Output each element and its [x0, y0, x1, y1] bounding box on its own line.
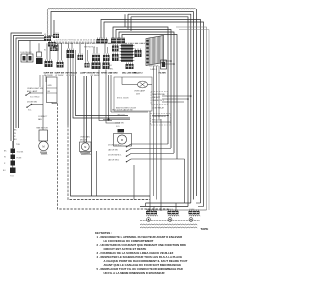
label J1 [44, 73, 54, 78]
svg-text:CLK: CLK [108, 65, 113, 67]
wire left riser 1 [11, 33, 42, 141]
wire top link 4 [128, 14, 191, 203]
svg-text:R: R [4, 163, 6, 165]
connector J1 [45, 43, 53, 67]
node harness bus [54, 42, 150, 44]
switch S4 [118, 129, 125, 132]
label mid note [84, 47, 95, 49]
svg-text:BROIL 3600W: BROIL 3600W [117, 98, 129, 100]
svg-text:OVEN LIGHT SW: OVEN LIGHT SW [27, 88, 43, 90]
connector J7 [122, 63, 137, 75]
svg-text:RR 1800W: RR 1800W [91, 75, 100, 77]
svg-text:OVEN LAMP: OVEN LAMP [134, 89, 146, 92]
svg-text:FILTER: FILTER [159, 73, 167, 75]
wire probe ties [162, 95, 192, 102]
transformer T1 [101, 43, 113, 74]
wire ground tape lower [140, 227, 197, 228]
svg-text:TOD: TOD [16, 144, 21, 146]
svg-text:2 - UN RETARD DU COURANT QUE P: 2 - UN RETARD DU COURANT QUE PENDANT UNE… [97, 243, 186, 247]
svg-text:CTRL: CTRL [108, 69, 114, 71]
wire ctl-right lead 3 [119, 32, 174, 153]
svg-text:INF SW A-B: INF SW A-B [66, 72, 78, 75]
svg-text:N.C.: N.C. [28, 110, 32, 112]
svg-text:GRD: GRD [48, 85, 53, 87]
label meat probe [151, 92, 168, 105]
label lock row3 [115, 123, 124, 129]
wire third lead at top-left [53, 20, 55, 36]
relay block K3 [135, 49, 142, 58]
label control bottom [108, 65, 114, 71]
switch S7 row [108, 154, 174, 157]
svg-text:DOOR SW N.O.: DOOR SW N.O. [108, 154, 122, 156]
switch S8 row [108, 158, 177, 162]
switch S6 row [108, 148, 171, 152]
svg-text:BROIL: BROIL [168, 209, 173, 211]
label J5 [90, 73, 100, 78]
label bus terminals [56, 40, 110, 42]
label keynotes block [95, 231, 188, 275]
svg-text:M: M [42, 145, 44, 149]
svg-text:W: W [4, 157, 6, 159]
svg-text:CONV RELAY: CONV RELAY [152, 107, 165, 110]
relay K2 [27, 41, 33, 63]
svg-text:TCO: TCO [10, 176, 15, 178]
wire motor2 drop [96, 151, 98, 196]
svg-text:BU: BU [3, 170, 6, 172]
svg-text:N.O. HELD: N.O. HELD [30, 96, 40, 98]
connector TB3 [44, 46, 57, 52]
wire lamp lead [122, 77, 152, 85]
wire lock feeds [109, 75, 112, 120]
component FLT [159, 60, 167, 75]
wire right bus 2 [193, 12, 195, 200]
svg-text:FAN MOTOR: FAN MOTOR [37, 127, 49, 130]
svg-text:UN FIL A LA MEME DIMENSION D E: UN FIL A LA MEME DIMENSION D EPAISSEUR [104, 271, 165, 275]
label M3 [80, 135, 90, 141]
label lock row [112, 109, 133, 112]
wire feed r3 [140, 207, 188, 212]
label row fillers [110, 72, 143, 75]
wire light outer right leads [176, 27, 209, 210]
svg-text:LOCK SW: LOCK SW [115, 123, 124, 125]
svg-text:BK: BK [48, 91, 51, 93]
svg-text:LATCH SW 2: LATCH SW 2 [108, 158, 119, 161]
svg-text:LATCH SW: LATCH SW [108, 148, 118, 151]
label lock row2 [117, 115, 126, 117]
motor M3 [80, 142, 92, 155]
svg-text:AVANT QUE LE CABLAGE DU FOUR S: AVANT QUE LE CABLAGE DU FOUR SOIT BIEN B… [104, 263, 182, 267]
svg-text:BU: BU [14, 139, 17, 141]
wire center riser 7 [91, 76, 93, 196]
switch S3 [26, 93, 43, 112]
fuse F4 [10, 166, 16, 178]
connector TB1 [44, 34, 51, 41]
label chain left [3, 151, 7, 173]
lamp DS1 [134, 81, 148, 95]
svg-text:R: R [14, 136, 16, 138]
connector P1 [48, 33, 59, 52]
connector J9 [112, 44, 119, 61]
element E3 (conv) [189, 209, 201, 221]
svg-text:FAN: FAN [38, 118, 42, 121]
connector J2 [57, 43, 64, 67]
svg-text:OVEN FAN: OVEN FAN [80, 135, 90, 138]
wire switch drop [134, 159, 185, 203]
fuse F1 [11, 141, 21, 153]
wire feed r1 [150, 199, 194, 201]
connector J5 [92, 47, 101, 69]
label F1 side [17, 152, 24, 154]
label J3 [66, 72, 78, 78]
svg-text:TOD BK: TOD BK [17, 152, 24, 154]
switch S5 row [108, 144, 168, 147]
wire sensor ties [152, 115, 171, 211]
svg-text:KEYNOTES :: KEYNOTES : [95, 231, 112, 235]
wire ground tape upper [140, 224, 197, 225]
svg-text:M: M [84, 146, 86, 149]
wire feed r5 [148, 210, 207, 211]
wire xfmr drop 1 [99, 70, 112, 121]
svg-text:DBL LINE BRK: DBL LINE BRK [122, 73, 137, 75]
wire center riser 4 [76, 76, 129, 116]
relay K1 [21, 51, 33, 62]
svg-text:L1: L1 [44, 34, 47, 36]
svg-text:1 - DESCONECTE L APPAREIL DU S: 1 - DESCONECTE L APPAREIL DU SECTEUR AVA… [97, 235, 183, 239]
svg-text:LE COUVERCLE DU COMPARTIMENT: LE COUVERCLE DU COMPARTIMENT [104, 239, 154, 243]
node lock junction [103, 118, 130, 120]
svg-text:BAKE: BAKE [146, 208, 152, 211]
wire inner lead from top-left corner [51, 12, 194, 37]
svg-text:SEE NOTE 4: SEE NOTE 4 [84, 47, 95, 49]
svg-text:TAPE: TAPE [201, 227, 209, 231]
element E1 (bake) [146, 208, 158, 221]
enclosure oven cavity [114, 77, 152, 111]
svg-text:N.O.: N.O. [116, 126, 120, 128]
wire xfmr drop 2 [106, 70, 120, 124]
svg-text:BK: BK [14, 130, 17, 132]
enclosure console (dashed) [57, 208, 59, 210]
wire left box drop [58, 104, 169, 212]
label J2 [55, 73, 65, 78]
label sensor [151, 107, 171, 126]
control board U1 [120, 45, 135, 62]
connector J4 [78, 43, 90, 67]
svg-text:A CHAQUE POINT DE RACCORDEMENT: A CHAQUE POINT DE RACCORDEMENT IL FAUT R… [104, 259, 188, 263]
svg-text:UNLOCK: UNLOCK [117, 115, 126, 117]
wire cross-over leads to far right [101, 20, 204, 207]
label convect [38, 116, 48, 121]
label TAPE [201, 227, 209, 231]
connector TB2 [48, 41, 56, 47]
svg-text:L2 GRD: L2 GRD [110, 73, 118, 75]
svg-text:4 - RESPECTER LE SCHEMA POUR T: 4 - RESPECTER LE SCHEMA POUR TOUS LES FI… [97, 255, 183, 259]
wire right bus 3 [124, 14, 126, 27]
wire element bus [140, 220, 200, 222]
motor M1 [37, 127, 49, 155]
svg-text:BK: BK [4, 151, 7, 153]
element E2 (broil) [168, 209, 180, 221]
wire feed r2 [146, 203, 191, 211]
label J4 [80, 72, 90, 75]
label oven box [116, 98, 136, 110]
wire element feed 1 [172, 195, 197, 197]
fuse F2 [11, 153, 16, 159]
fuse F3 [11, 159, 16, 166]
wire elem verticals [150, 196, 157, 211]
wire TS1 stubs [163, 60, 175, 65]
svg-text:MOTOR: MOTOR [80, 139, 88, 141]
svg-text:5 - REMPLACER TOUT FIL OU COND: 5 - REMPLACER TOUT FIL OU CONDUCTEUR END… [97, 267, 183, 271]
svg-text:SURF SW: SURF SW [44, 73, 54, 75]
switch S1 [36, 43, 43, 64]
wire ctl-right lead 1 [113, 27, 168, 144]
wire S2 feeds [40, 75, 46, 87]
label F2 side [17, 158, 23, 160]
svg-text:DOOR SW: DOOR SW [27, 101, 37, 103]
motor M2 lock [114, 134, 132, 147]
svg-text:DOOR SW N.C.: DOOR SW N.C. [108, 144, 122, 146]
wire shielded lead (zigzag, top-left corner to top-right) [47, 8, 195, 36]
wire right bus 1 [196, 9, 198, 196]
svg-text:W: W [14, 133, 16, 135]
switch S2 [25, 85, 43, 98]
wire center riser 5 [83, 76, 85, 142]
wire center riser 6 [86, 76, 88, 142]
svg-text:CIRCUIT EST ACTIVE ET RESTE: CIRCUIT EST ACTIVE ET RESTE [104, 247, 147, 251]
wire top link 5 [131, 17, 188, 207]
svg-text:M: M [121, 138, 123, 142]
svg-text:3 - FOURNEAU DE LA SURFACE LIN: 3 - FOURNEAU DE LA SURFACE LINEA CHECK V… [97, 251, 174, 255]
wire ctl-right lead 2 [116, 30, 171, 149]
wire TB4 bottom link [52, 103, 58, 104]
terminal block TB4 [47, 77, 58, 103]
wire center riser 3 [73, 76, 130, 118]
connector J6 [111, 37, 125, 44]
connector J8 [97, 38, 108, 44]
node bus terminal pins [56, 42, 101, 44]
svg-text:CONV: CONV [189, 209, 195, 211]
terminal strip TS1 [146, 36, 164, 66]
svg-text:SEE NOTE: SEE NOTE [149, 66, 159, 68]
connector J3 [67, 43, 76, 76]
svg-text:MOT DOOR LATCH SW: MOT DOOR LATCH SW [112, 109, 133, 112]
wire convect drop [42, 105, 44, 131]
wire lock tie [111, 111, 148, 113]
label TS1 text [149, 66, 159, 71]
svg-text:N: N [44, 50, 46, 52]
wire bottom tie 1 [150, 66, 159, 200]
label wire colors [14, 130, 17, 142]
wire ctl-right lead 4 [122, 35, 177, 160]
wire left riser 4 [19, 41, 49, 129]
svg-text:SURF SW: SURF SW [90, 73, 100, 75]
svg-text:FUSE: FUSE [17, 158, 23, 160]
svg-text:SURF SW: SURF SW [55, 73, 65, 75]
wire center riser 1 [68, 76, 150, 200]
svg-text:OVEN SENSOR: OVEN SENSOR [152, 116, 167, 118]
svg-text:SEE NOTE 3: SEE NOTE 3 [153, 100, 164, 102]
wire center riser 2 [71, 76, 151, 196]
wire left riser 3 [16, 38, 46, 128]
wire feed r4 [196, 203, 204, 207]
svg-text:RECEPT: RECEPT [153, 97, 162, 99]
svg-text:LAMP SW: LAMP SW [80, 72, 90, 75]
wire left riser 2 [14, 36, 45, 149]
svg-text:40W: 40W [136, 93, 140, 95]
